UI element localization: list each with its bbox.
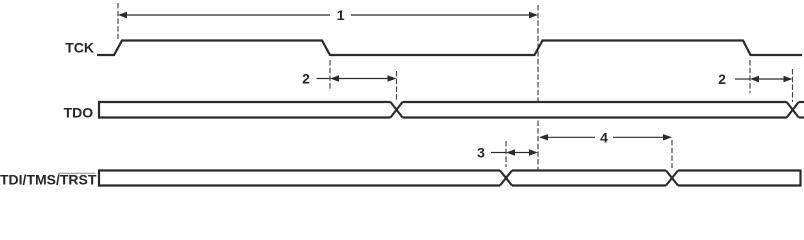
dashed reference line at TCK first rising edge (x=118) <box>117 3 119 39</box>
dimension 4 (TDI hold time) <box>539 134 672 140</box>
dimension 2 left (TCK fall to TDO transition) <box>317 75 397 81</box>
overline on TRST (active low) <box>58 172 96 174</box>
svg-text:4: 4 <box>600 129 608 145</box>
right closed edge <box>799 169 801 186</box>
bottom line segments <box>99 116 391 118</box>
crossover X at x=396.5 <box>391 102 403 118</box>
left closed edge <box>98 169 100 186</box>
dashed tick at TDI first transition (x=506) <box>505 141 507 167</box>
dashed tick at TCK second falling edge bottom (x=750) <box>749 60 751 93</box>
dashed reference line at TCK second rising edge (x=538) <box>537 5 539 170</box>
dashed tick at TDO second transition (x=792.5) <box>792 69 794 105</box>
TDO bus waveform <box>99 101 804 119</box>
TDI/TMS/TRST bus waveform <box>99 169 801 186</box>
TCK clock waveform <box>97 41 802 56</box>
top line segments <box>99 101 391 103</box>
dimension 3 (TDI setup time) <box>491 149 538 155</box>
svg-text:1: 1 <box>337 7 345 23</box>
bottom line segments <box>99 184 500 186</box>
svg-text:TCK: TCK <box>65 39 94 55</box>
top line segments <box>99 169 500 171</box>
svg-text:2: 2 <box>302 71 310 87</box>
dashed tick at TCK first falling edge bottom (x=330) <box>329 60 331 91</box>
svg-text:2: 2 <box>718 71 726 87</box>
dimension 2 right (TCK fall to TDO transition) <box>735 76 793 82</box>
left closed edge <box>98 101 100 119</box>
crossover X at x=506 <box>500 171 512 186</box>
svg-text:3: 3 <box>477 145 485 161</box>
dashed tick at TDI second transition (x=672) <box>671 140 673 168</box>
crossover X at x=792.7 <box>787 102 799 118</box>
dimension 1 (TCK period) arrow line <box>118 12 538 18</box>
dashed tick at TDO first transition (x=396.5) <box>396 71 398 108</box>
svg-text:TDO: TDO <box>64 104 94 120</box>
crossover X at x=672 <box>666 171 678 186</box>
